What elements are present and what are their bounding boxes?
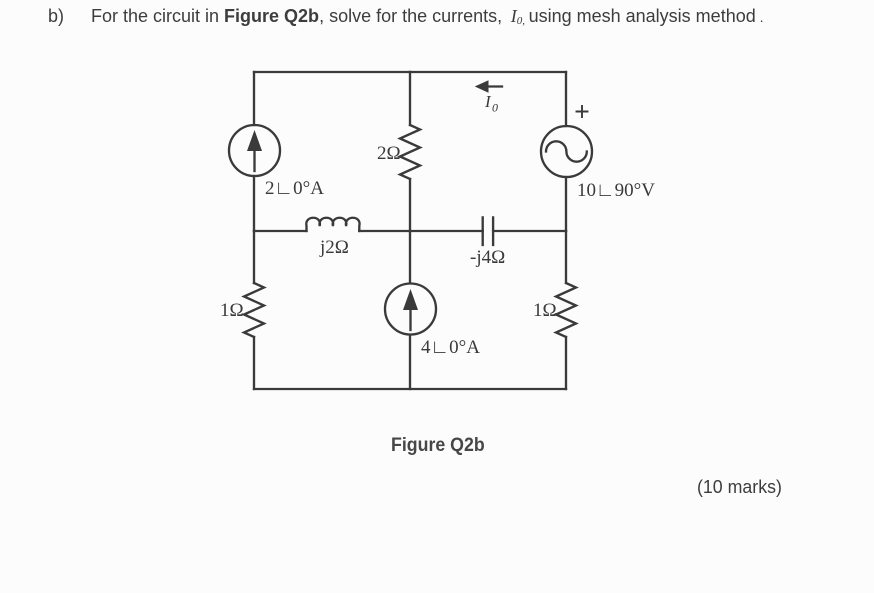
wire right branch (middle node to 1ohm resistor) <box>565 231 567 283</box>
wire bottom horizontal <box>254 388 566 390</box>
current arrow I0 <box>476 81 502 92</box>
svg-text:1Ω: 1Ω <box>533 300 557 321</box>
wire middle horizontal left (left node to inductor) <box>254 230 307 232</box>
svg-text:I: I <box>484 92 492 111</box>
title text <box>0 5 874 7</box>
resistor R3 1Ω right <box>556 283 576 337</box>
label -j4Ω <box>470 247 505 268</box>
svg-text:0: 0 <box>492 101 498 115</box>
wire right branch middle (voltage source to middle node) <box>565 177 567 231</box>
label 1Ω left <box>220 300 244 321</box>
label I0 <box>484 92 498 115</box>
wire left branch middle (current source to middle node) <box>253 176 255 231</box>
marks <box>697 476 782 498</box>
svg-text:1Ω: 1Ω <box>220 300 244 321</box>
wire left branch (middle node down to 1ohm resistor) <box>253 231 255 283</box>
wire left branch upper (top-left corner down to current source) <box>253 72 255 125</box>
wire middle horizontal (middle node to capacitor) <box>410 230 483 232</box>
resistor R1 1Ω left <box>244 283 264 337</box>
capacitor C1 -j4Ω plates <box>483 217 493 245</box>
wire middle branch lower (source to bottom node) <box>409 335 411 389</box>
wire middle branch (resistor to middle node) <box>409 179 411 231</box>
label + polarity <box>577 106 588 117</box>
wire middle horizontal (inductor to middle node) <box>359 230 410 232</box>
wire right branch lower (resistor to bottom-right corner) <box>565 337 567 389</box>
voltage source V1 circle <box>541 126 592 177</box>
label 4∠0°A <box>421 337 480 358</box>
label 10∠90°V <box>577 180 655 201</box>
svg-text:4∟0°A: 4∟0°A <box>421 337 480 358</box>
svg-text:j2Ω: j2Ω <box>319 237 349 258</box>
svg-text:2Ω: 2Ω <box>377 143 401 164</box>
svg-text:10∟90°V: 10∟90°V <box>577 180 655 201</box>
label 2Ω <box>377 143 401 164</box>
wire middle horizontal right (capacitor to right node) <box>493 230 566 232</box>
wire right branch upper (top-right corner to voltage source) <box>565 72 567 126</box>
wire middle branch (middle node to current source 4A) <box>409 231 411 283</box>
wire left branch lower (resistor to bottom-left corner) <box>253 337 255 389</box>
caption Figure Q2b <box>391 434 485 457</box>
resistor R2 2Ω middle <box>400 125 420 179</box>
inductor L1 j2Ω <box>306 218 359 231</box>
current source I2 4∠0°A circle <box>385 284 436 335</box>
current source I1 arrow (up) <box>248 132 262 172</box>
label 1Ω right <box>533 300 557 321</box>
label j2Ω <box>319 237 349 258</box>
current source I2 arrow (up) <box>404 291 418 331</box>
svg-text:-j4Ω: -j4Ω <box>470 247 505 268</box>
label 2∠0°A <box>265 178 324 199</box>
wire middle branch upper (top to 2ohm resistor) <box>409 72 411 125</box>
wire top-left horizontal (top-left corner to middle top node) <box>254 71 410 73</box>
wire top-right horizontal (middle top node to top-right corner) <box>410 71 566 73</box>
current source I1 2∠0°A circle <box>229 125 280 176</box>
svg-text:2∟0°A: 2∟0°A <box>265 178 324 199</box>
voltage source V1 sine wave <box>546 141 587 161</box>
